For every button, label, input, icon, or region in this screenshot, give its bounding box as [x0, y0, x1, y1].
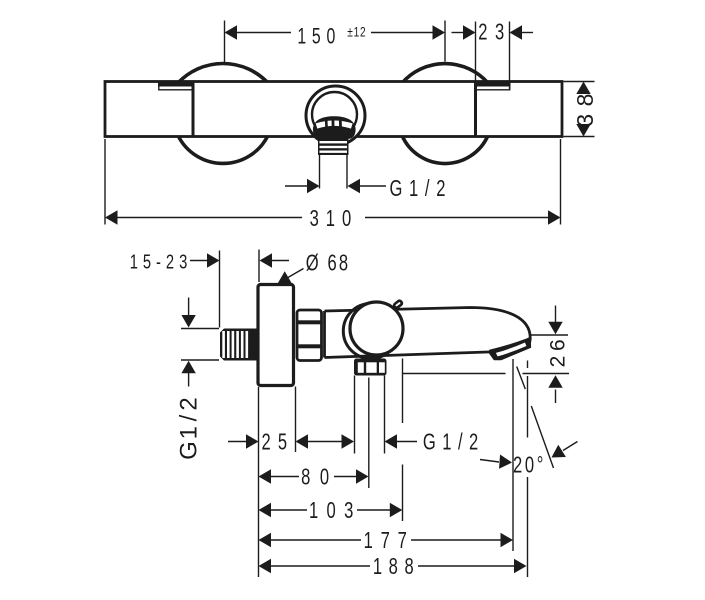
- 20° arrows and text: [480, 460, 499, 463]
- right escutcheon dome top arc: [402, 64, 488, 83]
- dimension 150 ±12: [224, 21, 226, 63]
- dimension G1/2 row: [385, 434, 398, 448]
- svg-text:1: 1: [176, 426, 203, 439]
- escutcheon: [258, 285, 294, 386]
- union nut: [297, 310, 322, 361]
- left union notch: [158, 82, 193, 87]
- svg-text:188: 188: [373, 554, 421, 579]
- svg-text:177: 177: [364, 528, 415, 553]
- dimension 26 (rotated): [531, 334, 569, 336]
- dimension G1/2 (outlet pipe): [285, 185, 308, 187]
- svg-text:310: 310: [310, 206, 359, 231]
- outlet pipe: [319, 155, 321, 189]
- svg-text:80: 80: [301, 465, 339, 490]
- svg-text:G1/2: G1/2: [423, 430, 485, 455]
- dimension 80 row: [259, 469, 272, 483]
- handle rear arc: [343, 304, 398, 359]
- left body divider: [192, 82, 195, 136]
- dimension 23: [475, 22, 477, 84]
- outlet nut: [318, 138, 349, 156]
- svg-text:103: 103: [309, 498, 362, 523]
- dimension 103 row: [259, 503, 272, 517]
- svg-text:20°: 20°: [513, 453, 546, 478]
- dimension 38: [564, 81, 595, 83]
- outlet bowl: [313, 116, 356, 139]
- label Ø 68: [260, 253, 273, 267]
- svg-text:150: 150: [297, 25, 341, 49]
- valve body and spout: [325, 308, 531, 359]
- right union notch: [476, 82, 511, 87]
- bowl white slot band: [317, 123, 352, 126]
- svg-text:Ø 68: Ø 68: [306, 251, 351, 276]
- bowl slot dividers: [325, 121, 328, 129]
- dimension 25 row: [228, 441, 246, 443]
- central knob inner ring: [312, 92, 357, 137]
- dimension 310: [104, 139, 106, 225]
- left escutcheon dome top arc: [178, 64, 268, 83]
- central knob outer ring: [306, 86, 365, 145]
- faucet body bar: [105, 82, 562, 137]
- dimension G1/2 left (rotated): [181, 328, 219, 330]
- handle button tab: [392, 298, 405, 310]
- svg-text:6: 6: [547, 339, 570, 351]
- svg-text:G1/2: G1/2: [389, 176, 452, 201]
- svg-text:3: 3: [572, 114, 598, 127]
- svg-text:8: 8: [572, 94, 598, 107]
- svg-text:23: 23: [478, 20, 512, 45]
- spout aerator lip: [488, 337, 531, 360]
- right body divider: [474, 82, 477, 136]
- outlet nut under valve: [354, 359, 387, 376]
- water stream 20° dashes: [517, 367, 526, 390]
- wall thread: [220, 329, 258, 361]
- extension lines below: [258, 387, 260, 577]
- dimension 177 row: [259, 533, 272, 547]
- svg-text:2: 2: [176, 397, 203, 410]
- dimension 188 row: [259, 559, 272, 573]
- left escutcheon dome bottom arc: [178, 136, 268, 164]
- svg-text:25: 25: [261, 430, 294, 455]
- svg-text:2: 2: [547, 356, 570, 368]
- svg-text:/: /: [176, 414, 203, 421]
- svg-text:±12: ±12: [347, 24, 366, 40]
- svg-text:G: G: [176, 441, 203, 460]
- handle knob: [350, 302, 403, 355]
- svg-text:15-23: 15-23: [130, 250, 193, 273]
- right escutcheon dome bottom arc: [402, 136, 488, 164]
